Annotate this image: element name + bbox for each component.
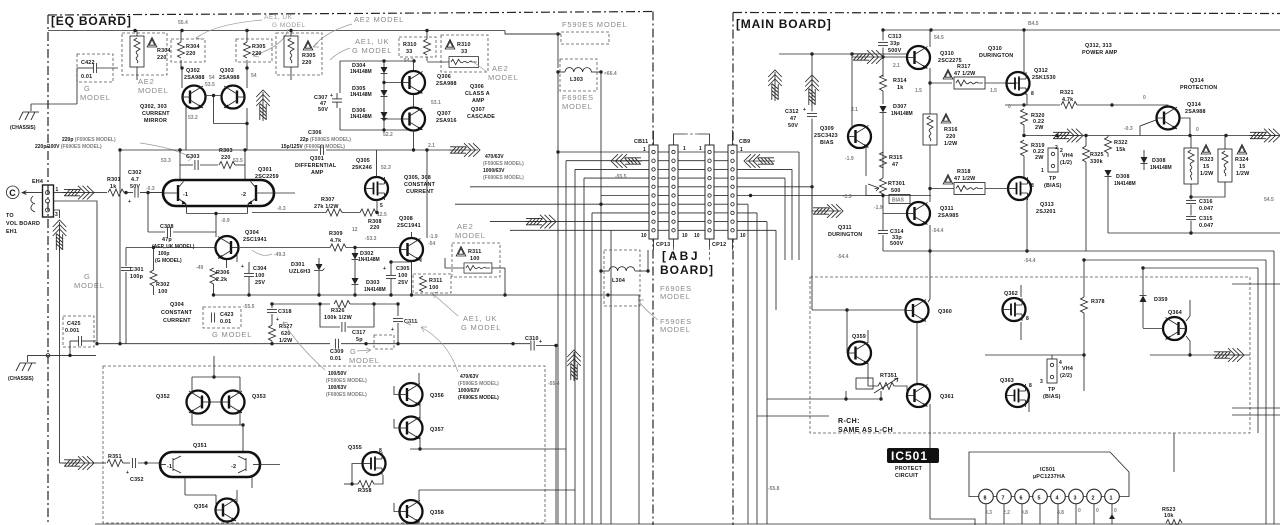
svg-text:33p: 33p xyxy=(890,41,900,47)
svg-text:-49: -49 xyxy=(196,265,203,271)
svg-text:+: + xyxy=(241,264,244,270)
svg-text:5p: 5p xyxy=(356,337,363,343)
svg-text:D307: D307 xyxy=(893,104,907,110)
svg-text:100/63V: 100/63V xyxy=(328,385,347,391)
svg-text:L303: L303 xyxy=(570,77,583,83)
svg-text:Q306: Q306 xyxy=(437,74,451,80)
svg-text:VH4: VH4 xyxy=(1062,366,1073,372)
svg-text:4.8: 4.8 xyxy=(1057,510,1064,516)
R307/R308 wiring xyxy=(252,150,379,214)
Q302/Q303 wiring xyxy=(180,66,248,150)
svg-text:Q307: Q307 xyxy=(437,111,451,117)
chassis ground (top) xyxy=(19,104,77,120)
svg-text:B4.5: B4.5 xyxy=(1028,21,1039,27)
connector VH4 (1/2) xyxy=(1041,148,1073,189)
svg-text:BIAS: BIAS xyxy=(820,140,834,146)
svg-text:D359: D359 xyxy=(1154,297,1168,303)
svg-text:CONSTANT: CONSTANT xyxy=(404,182,436,188)
svg-text:C310: C310 xyxy=(525,336,539,342)
svg-text:R303: R303 xyxy=(219,148,233,154)
hatched arrow near current mirror xyxy=(256,90,270,121)
svg-text:33: 33 xyxy=(461,49,467,55)
diode D359 xyxy=(1140,296,1168,329)
EQ rail y304 with R326 xyxy=(270,301,399,322)
transistor Q311 xyxy=(907,202,930,225)
svg-text:G MODEL: G MODEL xyxy=(352,46,392,55)
svg-text:10k: 10k xyxy=(1164,513,1174,519)
fet Q362 xyxy=(1003,298,1026,321)
resistor R319 xyxy=(1021,140,1028,156)
svg-text:-54.4: -54.4 xyxy=(1024,258,1036,264)
svg-text:53.3: 53.3 xyxy=(161,158,171,164)
transistor Q364 xyxy=(1163,317,1186,340)
Q304 wiring xyxy=(216,232,237,268)
svg-text:1N4148M: 1N4148M xyxy=(364,287,386,293)
svg-text:54: 54 xyxy=(209,75,215,81)
capacitor C423 dashed xyxy=(203,307,241,328)
zener D301 xyxy=(289,258,325,295)
svg-text:POWER AMP: POWER AMP xyxy=(1082,50,1118,56)
svg-text:C308: C308 xyxy=(160,224,174,230)
svg-text:1k: 1k xyxy=(897,85,903,91)
callout 100/50V to C318 xyxy=(283,322,325,370)
resistor R378 xyxy=(1081,297,1088,313)
svg-text:500: 500 xyxy=(891,188,901,194)
svg-text:2SA988: 2SA988 xyxy=(184,75,205,81)
svg-text:R310: R310 xyxy=(403,42,417,48)
svg-text:-2: -2 xyxy=(231,464,236,470)
svg-text:1k: 1k xyxy=(110,184,116,190)
svg-text:(F690ES MODEL): (F690ES MODEL) xyxy=(326,392,367,398)
svg-text:-1.9: -1.9 xyxy=(874,205,883,211)
svg-text:L304: L304 xyxy=(612,278,625,284)
svg-text:MODEL: MODEL xyxy=(660,325,691,334)
svg-text:-0.3: -0.3 xyxy=(1124,126,1133,132)
input jack C xyxy=(6,186,42,212)
svg-text:<66.4: <66.4 xyxy=(604,71,617,77)
svg-text:R-CH:: R-CH: xyxy=(838,418,860,425)
svg-text:MIRROR: MIRROR xyxy=(144,118,167,124)
svg-text:Q352: Q352 xyxy=(156,394,170,400)
svg-text:VOL BOARD: VOL BOARD xyxy=(6,221,40,227)
svg-text:100k 1/2W: 100k 1/2W xyxy=(324,315,353,321)
svg-text:Q313: Q313 xyxy=(1040,202,1054,208)
capacitor C352 xyxy=(132,458,135,468)
svg-text:25K246: 25K246 xyxy=(352,165,372,171)
svg-text:1: 1 xyxy=(1110,496,1113,502)
transistor Q353 xyxy=(222,391,245,414)
svg-text:+: + xyxy=(128,199,131,205)
svg-text:220: 220 xyxy=(302,60,312,66)
svg-text:R317: R317 xyxy=(957,64,971,70)
capacitor C313 xyxy=(878,28,902,77)
svg-text:G: G xyxy=(84,84,91,93)
resistor R305 (AE1/UK/G model) xyxy=(236,31,272,69)
svg-text:Q305, 308: Q305, 308 xyxy=(404,175,431,181)
connector CB9 xyxy=(728,130,737,250)
svg-text:15: 15 xyxy=(1203,164,1209,170)
svg-text:500V: 500V xyxy=(890,241,904,247)
svg-text:Q312: Q312 xyxy=(1034,68,1048,74)
svg-text:8: 8 xyxy=(1029,383,1032,389)
diode D308 (lower) xyxy=(1105,170,1136,190)
svg-text:CURRENT: CURRENT xyxy=(163,318,191,324)
svg-text:1/2W: 1/2W xyxy=(1236,171,1250,177)
svg-text:-55.5: -55.5 xyxy=(615,174,627,180)
svg-text:220: 220 xyxy=(252,51,262,57)
svg-text:2SA985: 2SA985 xyxy=(938,213,959,219)
svg-text:R318: R318 xyxy=(957,169,971,175)
svg-text:0.8: 0.8 xyxy=(1021,510,1028,516)
hatched arrow mid output xyxy=(1052,129,1083,143)
svg-text:Q304: Q304 xyxy=(170,302,184,308)
svg-text:(G MODEL): (G MODEL) xyxy=(155,258,182,264)
resistor R304 fusible (AE2 model) xyxy=(122,31,171,81)
svg-text:D303: D303 xyxy=(366,280,380,286)
svg-text:4: 4 xyxy=(1056,496,1059,502)
svg-text:1: 1 xyxy=(56,187,59,193)
hatched arrow into Q311 xyxy=(812,204,843,218)
svg-text:PROTECT: PROTECT xyxy=(895,466,923,472)
svg-text:AE2: AE2 xyxy=(457,222,474,231)
svg-text:C: C xyxy=(9,188,16,198)
hatched arrows (supply) xyxy=(768,70,782,101)
svg-text:Q301: Q301 xyxy=(258,167,272,173)
svg-text:47: 47 xyxy=(790,116,796,122)
svg-text:470/63V: 470/63V xyxy=(485,154,504,160)
fet Q355 xyxy=(363,452,386,475)
svg-text:-54: -54 xyxy=(428,241,435,247)
svg-text:Q364: Q364 xyxy=(1168,310,1182,316)
svg-text:C301: C301 xyxy=(130,267,144,273)
svg-text:RT351: RT351 xyxy=(880,373,897,379)
svg-text:47 1/2W: 47 1/2W xyxy=(954,176,976,182)
svg-text:(F590ES MODEL): (F590ES MODEL) xyxy=(326,378,367,384)
svg-text:+: + xyxy=(276,317,279,323)
svg-text:100p: 100p xyxy=(130,274,144,280)
svg-text:6: 6 xyxy=(1020,496,1023,502)
svg-text:RT301: RT301 xyxy=(888,181,905,187)
svg-text:0: 0 xyxy=(1096,508,1099,514)
svg-text:Q308: Q308 xyxy=(399,216,413,222)
svg-text:Q356: Q356 xyxy=(430,393,444,399)
capacitor C305 xyxy=(383,260,412,295)
resistor R325 xyxy=(1083,146,1090,162)
svg-text:R326: R326 xyxy=(331,308,345,314)
transistor Q312 (power fet) xyxy=(1007,72,1030,95)
svg-text:25V: 25V xyxy=(398,280,408,286)
svg-text:+: + xyxy=(126,470,129,476)
diodes D302 D303 xyxy=(352,246,386,295)
hatched arrow vertical right xyxy=(567,350,581,381)
svg-text:4.7k: 4.7k xyxy=(1062,97,1073,103)
svg-text:Q302: Q302 xyxy=(186,68,200,74)
svg-text:R301: R301 xyxy=(107,177,121,183)
svg-text:C317: C317 xyxy=(352,330,366,336)
capacitor C316 xyxy=(1186,197,1214,215)
hatched arrow on input xyxy=(63,186,94,200)
svg-text:500V: 500V xyxy=(888,48,902,54)
svg-text:100: 100 xyxy=(158,289,168,295)
resistor R308 xyxy=(360,209,376,216)
svg-text:47p: 47p xyxy=(162,237,172,243)
svg-text:DURINGTON: DURINGTON xyxy=(828,232,862,238)
svg-text:Q314: Q314 xyxy=(1187,102,1201,108)
F590ES jumper box xyxy=(505,32,609,68)
diode D307 xyxy=(880,104,913,150)
svg-text:CP12: CP12 xyxy=(712,242,726,248)
svg-text:R311: R311 xyxy=(429,278,442,284)
svg-text:Q351: Q351 xyxy=(193,443,207,449)
svg-text:UZL6H3: UZL6H3 xyxy=(289,269,311,275)
bottom edge line xyxy=(95,523,1280,525)
svg-text:0.047: 0.047 xyxy=(1199,223,1214,229)
svg-text:0: 0 xyxy=(1196,127,1199,133)
connector VH4 (2/2) xyxy=(1040,359,1073,400)
svg-text:(1/2): (1/2) xyxy=(1060,160,1072,166)
svg-text:R327: R327 xyxy=(279,324,293,330)
svg-text:2: 2 xyxy=(1092,496,1095,502)
svg-text:IC501: IC501 xyxy=(1040,467,1055,473)
transistor Q314 xyxy=(1157,107,1180,130)
svg-text:CASCADE: CASCADE xyxy=(467,114,495,120)
fet Q363 xyxy=(1006,384,1029,407)
svg-text:MODEL: MODEL xyxy=(138,86,169,95)
svg-text:Q360: Q360 xyxy=(938,309,952,315)
svg-text:-0.9: -0.9 xyxy=(221,218,230,224)
EQ input vertical wires xyxy=(54,148,122,463)
svg-text:54.5: 54.5 xyxy=(934,35,944,41)
inductor L304 xyxy=(599,250,649,306)
diode column D304 D305 D306 xyxy=(340,59,416,131)
transistor Q354 xyxy=(216,499,239,522)
capacitor C308 xyxy=(146,191,216,264)
svg-text:DIFFERENTIAL: DIFFERENTIAL xyxy=(295,163,337,169)
connector CB11 xyxy=(649,131,658,250)
thermistor RT301 xyxy=(866,150,905,214)
svg-text:AE1, UK: AE1, UK xyxy=(463,314,497,323)
svg-text:50V: 50V xyxy=(318,107,328,113)
svg-text:G: G xyxy=(350,347,357,356)
svg-text:R358: R358 xyxy=(358,488,372,494)
svg-text:CB11: CB11 xyxy=(634,139,648,145)
hatched arrow mid xyxy=(449,143,480,157)
svg-text:MODEL: MODEL xyxy=(660,292,691,301)
svg-text:G MODEL: G MODEL xyxy=(461,323,501,332)
svg-text:F590ES MODEL: F590ES MODEL xyxy=(562,20,627,29)
svg-text:3.3: 3.3 xyxy=(985,510,992,516)
svg-text:100: 100 xyxy=(398,273,408,279)
transistor Q352 xyxy=(187,391,210,414)
svg-text:220: 220 xyxy=(221,155,231,161)
svg-text:MODEL: MODEL xyxy=(349,356,380,365)
svg-text:2W: 2W xyxy=(1035,155,1044,161)
svg-text:AMP: AMP xyxy=(472,98,485,104)
row y105 with R321 xyxy=(1005,90,1114,110)
Q310 emitter row xyxy=(915,68,952,94)
svg-text:BOARD]: BOARD] xyxy=(660,263,714,277)
svg-text:R324: R324 xyxy=(1235,157,1249,163)
svg-text:-55.8: -55.8 xyxy=(768,486,780,492)
svg-text:1N4148M: 1N4148M xyxy=(891,111,913,117)
transistor Q356 xyxy=(400,383,423,406)
svg-text:-54.4: -54.4 xyxy=(932,228,944,234)
svg-text:R305: R305 xyxy=(252,44,266,50)
vertical bus bundle xyxy=(558,152,639,524)
svg-text:55.4: 55.4 xyxy=(178,20,188,26)
svg-text:TO: TO xyxy=(6,213,14,219)
svg-text:50V: 50V xyxy=(788,123,798,129)
svg-text:2SC1941: 2SC1941 xyxy=(397,223,421,229)
transistor Q360 xyxy=(906,299,929,322)
svg-text:C303: C303 xyxy=(186,154,200,160)
svg-text:8: 8 xyxy=(379,448,382,454)
transistor Q361 xyxy=(907,384,930,407)
svg-text:22p (F590ES MODEL): 22p (F590ES MODEL) xyxy=(300,137,351,143)
svg-text:Q307: Q307 xyxy=(471,107,485,113)
capacitor C314 xyxy=(878,214,930,252)
svg-text:PROTECTION: PROTECTION xyxy=(1180,85,1217,91)
svg-text:470/63V: 470/63V xyxy=(460,374,479,380)
svg-text:(BIAS): (BIAS) xyxy=(1043,394,1061,400)
svg-text:Q309: Q309 xyxy=(820,126,834,132)
svg-text:AE2: AE2 xyxy=(492,64,509,73)
svg-text:R310: R310 xyxy=(457,42,471,48)
svg-text:8: 8 xyxy=(984,496,987,502)
svg-text:4.7k: 4.7k xyxy=(330,238,341,244)
R-CH box left wiring xyxy=(757,378,883,416)
BIAS box xyxy=(889,195,910,204)
svg-text:R304: R304 xyxy=(157,48,171,54)
svg-text:C318: C318 xyxy=(278,309,292,315)
svg-text:F690ES: F690ES xyxy=(562,93,594,102)
svg-text:47: 47 xyxy=(892,162,898,168)
svg-text:Q305: Q305 xyxy=(356,158,370,164)
svg-text:Q311: Q311 xyxy=(940,206,954,212)
resistor R318 fusible xyxy=(928,169,1008,195)
resistor R310 dashed (AE1/UK/G) xyxy=(399,31,436,62)
svg-text:Q353: Q353 xyxy=(252,394,266,400)
svg-text:CP13: CP13 xyxy=(656,242,670,248)
svg-text:27k 1/2W: 27k 1/2W xyxy=(314,204,339,210)
resistor R310 fusible (AE2) xyxy=(427,35,488,72)
resistor R305 fusible (G model) xyxy=(276,31,322,81)
fet Q305 xyxy=(365,177,388,200)
svg-text:0.01: 0.01 xyxy=(220,319,231,325)
svg-text:1N4148M: 1N4148M xyxy=(350,114,372,120)
transistor Q357 xyxy=(400,417,423,440)
svg-text:0.01: 0.01 xyxy=(330,356,341,362)
svg-text:100: 100 xyxy=(429,285,439,291)
svg-text:2SC3423: 2SC3423 xyxy=(814,133,838,139)
transistor Q358 xyxy=(400,500,423,523)
svg-text:47 1/2W: 47 1/2W xyxy=(954,71,976,77)
svg-text:-1.9: -1.9 xyxy=(429,234,438,240)
svg-text:CURRENT: CURRENT xyxy=(406,189,434,195)
EQ bottom dashed box xyxy=(103,366,545,523)
EQ rail y295 xyxy=(212,293,639,296)
svg-text:D301: D301 xyxy=(291,262,305,268)
svg-text:0.001: 0.001 xyxy=(65,328,80,334)
svg-text:1000/63V: 1000/63V xyxy=(483,168,505,174)
svg-text:Q306: Q306 xyxy=(470,84,484,90)
svg-text:AE1, UK: AE1, UK xyxy=(355,37,389,46)
svg-text:-49.3: -49.3 xyxy=(274,252,286,258)
svg-text:-1.9: -1.9 xyxy=(845,156,854,162)
misc right edge wires xyxy=(1232,284,1280,415)
svg-text:R315: R315 xyxy=(889,155,903,161)
transistor Q309 xyxy=(848,125,871,148)
Q311 emitter down xyxy=(928,225,931,253)
svg-text:C302: C302 xyxy=(128,170,142,176)
svg-text:8: 8 xyxy=(1031,183,1034,189)
svg-text:(F690ES MODEL): (F690ES MODEL) xyxy=(458,395,499,401)
svg-text:Q302, 303: Q302, 303 xyxy=(140,104,167,110)
svg-text:15: 15 xyxy=(1239,164,1245,170)
capacitor C301 + resistor R302 xyxy=(121,246,216,344)
svg-text:2SA988: 2SA988 xyxy=(1185,109,1206,115)
svg-text:3: 3 xyxy=(1040,379,1043,385)
svg-text:Q314: Q314 xyxy=(1190,78,1204,84)
svg-text:C309: C309 xyxy=(330,349,344,355)
svg-text:1.5: 1.5 xyxy=(915,88,922,94)
resistor R316 fusible xyxy=(923,83,958,202)
hatched arrow bus left xyxy=(611,154,642,168)
right bus verticals below connectors xyxy=(648,152,931,524)
svg-text:Q311: Q311 xyxy=(838,225,852,231)
capacitor C317 xyxy=(320,304,374,343)
transistor Q303 xyxy=(222,86,245,109)
svg-text:(F690ES MODEL): (F690ES MODEL) xyxy=(483,175,524,181)
transistor Q306 xyxy=(402,71,425,94)
connector CP12 xyxy=(685,134,714,262)
hatched arrow right output xyxy=(1249,129,1280,143)
svg-text:52.3: 52.3 xyxy=(381,165,391,171)
svg-text:100/50V: 100/50V xyxy=(328,371,347,377)
svg-text:Q301: Q301 xyxy=(310,156,324,162)
output row y135.5 xyxy=(1022,134,1280,137)
EQ board border xyxy=(48,12,653,525)
svg-text:+: + xyxy=(803,107,806,113)
svg-text:53.1: 53.1 xyxy=(431,100,441,106)
svg-text:Q362: Q362 xyxy=(1004,291,1018,297)
svg-text:10: 10 xyxy=(740,233,746,239)
svg-text:53.2: 53.2 xyxy=(188,115,198,121)
connector inter-board row wires xyxy=(658,152,728,230)
svg-text:33: 33 xyxy=(406,49,412,55)
svg-text:1N4148M: 1N4148M xyxy=(350,92,372,98)
svg-text:3: 3 xyxy=(1074,496,1077,502)
svg-text:7: 7 xyxy=(1002,496,1005,502)
svg-text:(BIAS): (BIAS) xyxy=(1044,183,1062,189)
svg-text:CIRCUIT: CIRCUIT xyxy=(895,473,919,479)
svg-text:10: 10 xyxy=(694,233,700,239)
svg-text:(2/2): (2/2) xyxy=(1060,373,1072,379)
svg-text:C305: C305 xyxy=(396,266,410,272)
svg-text:MODEL: MODEL xyxy=(488,73,519,82)
hatched arrow bus right xyxy=(744,154,775,168)
svg-text:220: 220 xyxy=(370,225,380,231)
svg-text:330k: 330k xyxy=(1090,159,1103,165)
svg-text:0: 0 xyxy=(1078,508,1081,514)
svg-text:TP: TP xyxy=(1048,387,1055,393)
transistor Q307 xyxy=(402,108,425,131)
fet Q313 xyxy=(1008,177,1031,200)
svg-text:+: + xyxy=(391,327,394,333)
svg-text:+: + xyxy=(539,339,542,345)
svg-text:C316: C316 xyxy=(1199,199,1213,205)
VH4 wiring xyxy=(985,285,1086,412)
